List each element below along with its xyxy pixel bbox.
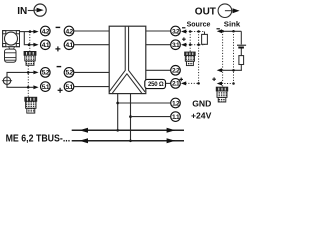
svg-text:250 Ω: 250 Ω: [148, 82, 164, 88]
wire isolator to 2.2: [146, 69, 171, 71]
polarity minus input 2: [57, 66, 62, 68]
svg-text:ME 6,2 TBUS-...: ME 6,2 TBUS-...: [6, 133, 71, 144]
terminal 1.1: [171, 112, 181, 122]
junction dot GND stub: [116, 102, 119, 105]
TBUS 24V rail: [72, 140, 184, 142]
TBUS 24V rail right arrow: [167, 138, 176, 143]
wire transmitter down-leg to terminal 4.1: [24, 32, 33, 45]
terminal plug 5.2: [41, 68, 51, 78]
junction dot on 5.1 wire: [27, 86, 30, 89]
polarity plus input 1: [55, 46, 60, 51]
svg-text:IN: IN: [17, 6, 27, 17]
polarity minus at 3.2: [182, 27, 185, 29]
junction dot on 4.1 wire: [28, 43, 31, 46]
sink arrow to 2.1 row: [217, 82, 222, 86]
wire isolator to 3.2: [146, 30, 171, 32]
sink arrow upper: [217, 29, 222, 33]
wire 4.2 to isolator: [74, 30, 109, 32]
arrow into terminal 2.1: [181, 81, 186, 85]
terminal 4.1 device: [64, 40, 74, 50]
svg-text:5.1: 5.1: [65, 84, 73, 91]
svg-text:3.2: 3.2: [172, 28, 180, 35]
junction dot GND rail: [116, 129, 119, 132]
svg-text:2.2: 2.2: [172, 68, 180, 75]
terminal plug 4.1: [41, 40, 51, 50]
transmitter B1 (2-wire transmitter head): [3, 31, 20, 50]
junction dot at 2.1 drop: [197, 82, 200, 85]
terminal plug 5.1: [41, 82, 51, 92]
wire stub to terminal 1.1: [131, 116, 171, 118]
polarity plus sink lower: [212, 77, 216, 81]
arrow into terminal 4.1: [33, 43, 38, 47]
terminal 4.2 device: [64, 26, 74, 36]
wire isolator to 24V rail: [130, 94, 132, 141]
junction dot sink 2.1 row: [232, 82, 235, 85]
wire 4.1 to isolator: [74, 44, 109, 46]
source shield dotted drop: [189, 32, 191, 52]
sink right wire lower: [240, 65, 242, 71]
wire transmitter to terminal 4.2: [20, 31, 34, 33]
polarity minus sink: [217, 28, 220, 30]
terminal 2.1: [171, 79, 181, 89]
polarity plus at 3.1: [182, 37, 186, 41]
polarity plus at 2.1: [179, 78, 183, 82]
svg-text:4.2: 4.2: [42, 28, 50, 35]
arrow into terminal 3.2 (source): [181, 30, 186, 34]
svg-text:1.1: 1.1: [172, 114, 180, 121]
wire sensor to terminal 5.2: [7, 72, 33, 77]
arrow into terminal 5.2: [33, 71, 38, 75]
shield dotted line input 1: [29, 32, 31, 52]
isolator block U1 with isolation symbol: [109, 26, 146, 94]
source dotted line upper: [186, 31, 205, 33]
battery external supply: [237, 45, 246, 47]
junction dot sink bottom line: [232, 69, 235, 72]
svg-text:3.1: 3.1: [172, 42, 180, 49]
transmitter process canister: [5, 49, 17, 62]
TBUS 24V rail left arrow: [79, 138, 88, 143]
polarity minus input 1: [56, 26, 61, 28]
arrow into terminal 5.1: [33, 85, 38, 89]
TBUS GND rail left arrow: [79, 128, 88, 133]
shield clamp input 2: [25, 97, 37, 113]
svg-text:4.1: 4.1: [65, 42, 73, 49]
junction dots sink top line: [221, 30, 224, 33]
junction dot on 4.2 wire: [29, 30, 32, 33]
terminal 3.1: [171, 40, 181, 50]
wire 250 ohm to 2.1: [166, 82, 171, 84]
wire isolator to 3.1: [146, 44, 171, 46]
svg-text:+24V: +24V: [191, 111, 212, 121]
terminal 5.1 device: [64, 82, 74, 92]
svg-text:5.2: 5.2: [42, 70, 50, 77]
sink arrow lower: [217, 68, 222, 72]
terminal 5.2 device: [64, 68, 74, 78]
sink bottom line: [222, 69, 242, 71]
resistor 250 ohm shunt: [145, 79, 166, 88]
junction dot on 5.2 wire: [27, 71, 30, 74]
terminal plug 4.2: [41, 26, 51, 36]
sink top line: [222, 30, 242, 32]
shield clamp output sink: [216, 87, 228, 102]
wire 5.1 to isolator: [74, 86, 109, 88]
svg-text:OUT: OUT: [195, 7, 216, 18]
shield clamp input 1: [24, 51, 36, 65]
shield clamp output source: [185, 52, 196, 66]
terminal 2.2: [171, 66, 181, 76]
svg-text:Source: Source: [187, 19, 211, 28]
arrow into terminal 4.2: [33, 30, 38, 34]
wire isolator to GND rail: [117, 94, 119, 131]
IN signal-flow symbol: [28, 4, 46, 16]
terminal 1.2: [171, 98, 181, 108]
svg-text:5.1: 5.1: [42, 84, 50, 91]
svg-text:GND: GND: [192, 99, 211, 109]
junction dot 24V rail: [129, 139, 132, 142]
junction dot 24V stub: [129, 115, 132, 118]
dotted link to 2.1: [186, 82, 199, 84]
junction dots on source upper line: [189, 30, 192, 33]
wire 5.2 to isolator: [74, 71, 109, 73]
svg-text:4.2: 4.2: [65, 28, 73, 35]
terminal 3.2: [171, 26, 181, 36]
source load resistor: [202, 32, 208, 45]
wire sensor to terminal 5.1: [7, 84, 33, 87]
svg-text:2.1: 2.1: [172, 81, 180, 88]
sink load resistor: [239, 56, 244, 65]
shield dotted line between clamp 1 and clamp 2: [27, 66, 29, 97]
sink dotted row to 2.1: [222, 83, 234, 85]
polarity plus input 2: [58, 88, 63, 93]
dotted drop from source to 2.1: [198, 32, 200, 84]
svg-text:1.2: 1.2: [172, 100, 180, 107]
arrow into terminal 3.1 (source): [181, 43, 186, 47]
sink wire between battery and load: [240, 49, 242, 56]
sink right wire upper: [240, 31, 242, 44]
OUT signal-flow symbol: [218, 4, 240, 18]
svg-text:5.2: 5.2: [65, 70, 73, 77]
wire stub to terminal 1.2: [118, 102, 171, 104]
junction dots on source lower line: [189, 44, 192, 47]
sensor B2 (passive sensor element): [2, 75, 12, 86]
svg-text:4.1: 4.1: [42, 42, 50, 49]
TBUS GND rail right arrow: [167, 128, 176, 133]
TBUS GND rail: [72, 129, 184, 131]
svg-text:Sink: Sink: [224, 19, 241, 28]
sink shield dotted drop: [222, 31, 224, 87]
source dotted line lower: [186, 44, 205, 46]
sink dotted drop to 2.1 row: [233, 31, 235, 83]
